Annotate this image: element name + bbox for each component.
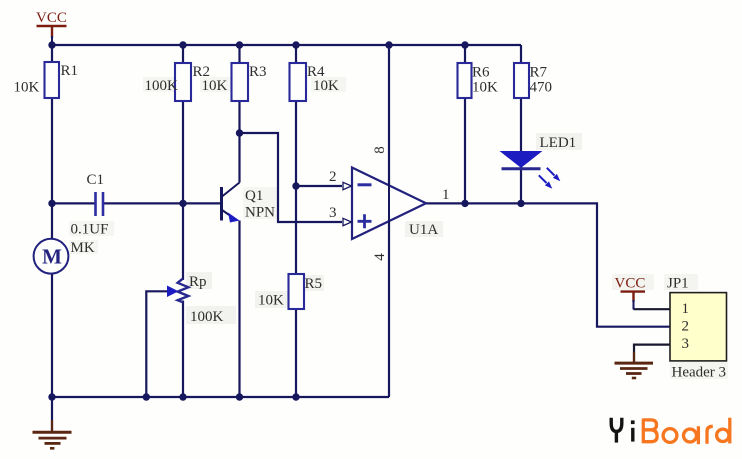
- svg-text:VCC: VCC: [615, 276, 646, 292]
- svg-text:R7: R7: [530, 65, 548, 81]
- svg-text:10K: 10K: [313, 78, 339, 94]
- svg-text:100K: 100K: [190, 309, 224, 325]
- svg-text:M: M: [42, 245, 62, 269]
- svg-text:R1: R1: [61, 63, 79, 79]
- svg-text:10K: 10K: [258, 293, 284, 309]
- svg-text:R3: R3: [249, 64, 267, 80]
- svg-text:Rp: Rp: [189, 274, 207, 290]
- svg-text:0.1UF: 0.1UF: [71, 222, 109, 238]
- svg-text:NPN: NPN: [245, 205, 275, 221]
- svg-text:R5: R5: [305, 276, 323, 292]
- svg-text:1: 1: [682, 301, 690, 317]
- svg-text:U1A: U1A: [409, 222, 438, 238]
- svg-text:VCC: VCC: [36, 10, 67, 26]
- svg-text:1: 1: [442, 187, 450, 203]
- svg-text:3: 3: [682, 336, 690, 352]
- svg-text:8: 8: [372, 146, 388, 154]
- svg-text:R6: R6: [472, 65, 490, 81]
- svg-text:4: 4: [372, 253, 388, 261]
- svg-text:MK: MK: [71, 240, 95, 256]
- svg-text:JP1: JP1: [667, 276, 689, 292]
- svg-text:LED1: LED1: [540, 135, 577, 151]
- svg-text:10K: 10K: [202, 78, 228, 94]
- svg-text:2: 2: [682, 319, 690, 335]
- svg-text:Q1: Q1: [245, 188, 263, 204]
- svg-text:C1: C1: [87, 172, 105, 188]
- svg-text:3: 3: [329, 205, 337, 221]
- svg-text:470: 470: [530, 80, 553, 96]
- svg-text:Header 3: Header 3: [672, 365, 727, 381]
- svg-text:100K: 100K: [145, 78, 179, 94]
- svg-text:10K: 10K: [472, 80, 498, 96]
- svg-text:10K: 10K: [14, 80, 40, 96]
- svg-text:2: 2: [329, 169, 337, 185]
